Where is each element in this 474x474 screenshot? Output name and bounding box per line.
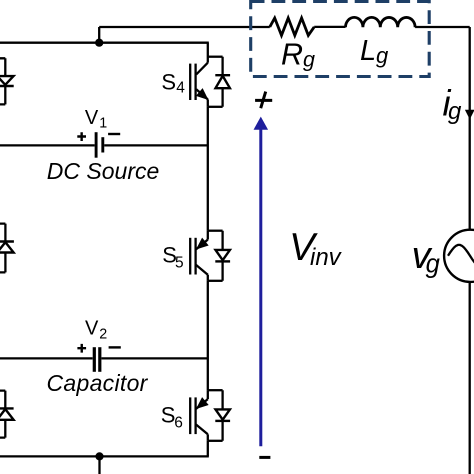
wire leg S4 to S5 bbox=[207, 107, 209, 231]
wire between resistor and inductor bbox=[314, 26, 345, 28]
wire bottom rail bbox=[0, 455, 209, 457]
svg-text:6: 6 bbox=[174, 415, 183, 432]
wire V2 row left bbox=[0, 357, 93, 359]
transistor S5 bbox=[190, 231, 222, 281]
svg-text:S: S bbox=[161, 70, 176, 95]
svg-text:V: V bbox=[85, 107, 99, 129]
minus sign of Vinv bbox=[259, 456, 270, 459]
svg-text:DC Source: DC Source bbox=[47, 158, 159, 184]
plus sign of V1 bbox=[77, 132, 86, 141]
wire V1 row right bbox=[104, 144, 208, 146]
inductor Lg bbox=[346, 17, 416, 27]
resistor Rg bbox=[270, 18, 314, 35]
svg-text:V: V bbox=[85, 318, 99, 340]
arrowhead ig on right wire bbox=[466, 110, 474, 118]
wire V2 row right bbox=[102, 357, 208, 359]
capacitor V2 left plate bbox=[93, 347, 96, 372]
svg-text:4: 4 bbox=[176, 80, 185, 97]
svg-text:g: g bbox=[426, 251, 440, 279]
svg-text:1: 1 bbox=[99, 116, 107, 132]
AC source vg sine bbox=[448, 245, 474, 264]
svg-text:R: R bbox=[281, 38, 303, 72]
minus sign of V2 bbox=[109, 346, 121, 348]
svg-text:inv: inv bbox=[310, 244, 343, 271]
battery V1 positive plate bbox=[95, 132, 98, 158]
diode D2 (left leg, middle row) bbox=[0, 224, 14, 273]
AC source vg circle bbox=[444, 230, 474, 282]
plus sign of Vinv bbox=[255, 92, 272, 109]
wire V1 row left bbox=[0, 144, 95, 146]
minus sign of V1 bbox=[108, 133, 120, 135]
capacitor V2 right plate bbox=[98, 347, 101, 372]
wire stub from bottom junction down bbox=[98, 456, 100, 474]
node top junction bbox=[95, 39, 103, 47]
node bottom junction bbox=[95, 452, 103, 460]
wire right vertical down to source vg bbox=[469, 27, 471, 230]
battery V1 negative plate bbox=[101, 137, 104, 152]
wire below source vg to bottom edge bbox=[469, 282, 471, 474]
wire inductor to right corner bbox=[415, 26, 470, 28]
svg-text:S: S bbox=[161, 402, 176, 427]
wire leg S6 to bottom rail bbox=[207, 441, 209, 457]
wire top rail bbox=[0, 42, 209, 44]
diode D3 (left leg, bottom row) bbox=[0, 391, 14, 438]
arrow Vinv (blue) bbox=[254, 118, 267, 447]
boundary dashed box around Rg Lg bbox=[251, 2, 430, 77]
svg-text:g: g bbox=[376, 43, 389, 68]
svg-text:2: 2 bbox=[99, 326, 107, 342]
diode of S6 bbox=[215, 390, 230, 441]
svg-text:g: g bbox=[448, 98, 462, 125]
svg-text:g: g bbox=[303, 48, 315, 72]
diode of S5 bbox=[215, 231, 230, 281]
transistor S6 bbox=[190, 390, 222, 441]
wire stub from top junction up bbox=[98, 27, 100, 43]
wire upper horizontal to resistor bbox=[99, 26, 270, 28]
transistor S4 bbox=[190, 43, 222, 107]
svg-text:L: L bbox=[360, 35, 376, 67]
diode of S4 bbox=[215, 57, 230, 107]
plus sign of V2 bbox=[77, 344, 86, 353]
wire leg S5 to S6 bbox=[207, 281, 209, 390]
svg-text:5: 5 bbox=[175, 255, 184, 272]
diode D1 (left leg, top row) bbox=[0, 58, 14, 104]
svg-text:Capacitor: Capacitor bbox=[47, 370, 149, 396]
